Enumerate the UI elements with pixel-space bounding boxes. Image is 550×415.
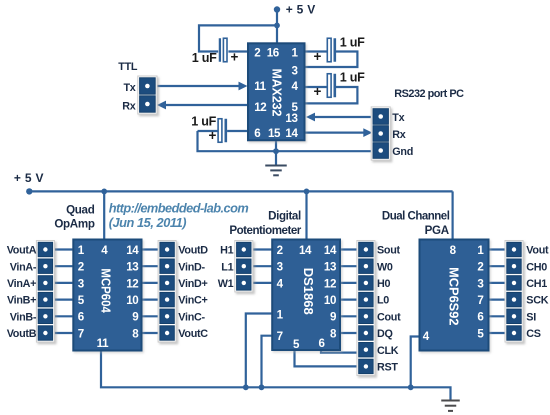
svg-text:13: 13 (285, 112, 298, 125)
svg-text:H0: H0 (377, 278, 390, 290)
svg-text:4: 4 (101, 244, 108, 257)
svg-text:12: 12 (126, 277, 138, 290)
svg-text:12: 12 (324, 277, 336, 290)
svg-text:6: 6 (254, 127, 261, 140)
svg-text:VinD-: VinD- (178, 261, 205, 273)
svg-text:Digital: Digital (268, 210, 301, 223)
svg-text:MAX232: MAX232 (270, 69, 285, 117)
svg-text:Tx: Tx (392, 112, 404, 124)
svg-text:RS232 port PC: RS232 port PC (394, 88, 464, 100)
svg-text:12: 12 (254, 101, 266, 114)
svg-text:VinA+: VinA+ (7, 278, 36, 290)
svg-text:CS: CS (526, 328, 540, 340)
svg-text:Sout: Sout (377, 245, 400, 257)
svg-text:9: 9 (132, 311, 139, 324)
svg-text:Dual Channel: Dual Channel (382, 211, 450, 223)
svg-text:9: 9 (330, 311, 337, 324)
svg-text:VoutA: VoutA (7, 245, 37, 257)
svg-text:8: 8 (132, 327, 139, 340)
svg-text:RST: RST (377, 362, 398, 374)
svg-text:13: 13 (324, 261, 337, 274)
svg-text:DQ: DQ (377, 328, 393, 340)
svg-text:Gnd: Gnd (392, 146, 413, 158)
svg-text:+: + (314, 49, 322, 64)
svg-text:3: 3 (277, 261, 284, 274)
svg-text:6: 6 (78, 311, 85, 324)
svg-text:1 uF: 1 uF (191, 115, 216, 129)
svg-text:Cout: Cout (377, 311, 401, 323)
svg-text:15: 15 (268, 127, 281, 140)
svg-text:+: + (209, 128, 217, 143)
svg-text:2: 2 (254, 46, 260, 59)
svg-text:2: 2 (78, 261, 84, 274)
svg-text:Potentiometer: Potentiometer (229, 224, 301, 237)
svg-text:+: + (231, 50, 239, 65)
svg-text:8: 8 (450, 244, 457, 257)
svg-text:VoutC: VoutC (178, 328, 208, 340)
svg-text:1: 1 (291, 46, 298, 59)
svg-text:Rx: Rx (392, 129, 405, 141)
svg-text:7: 7 (277, 330, 283, 343)
svg-text:Tx: Tx (124, 82, 136, 94)
svg-text:L1: L1 (221, 261, 233, 273)
svg-text:4: 4 (291, 80, 298, 93)
svg-text:TTL: TTL (118, 61, 138, 73)
svg-text:VinB-: VinB- (10, 311, 37, 323)
svg-text:Quad: Quad (66, 204, 95, 217)
svg-text:SI: SI (526, 311, 536, 323)
svg-text:http://embedded-lab.com: http://embedded-lab.com (109, 201, 249, 216)
svg-text:W0: W0 (377, 261, 393, 273)
svg-text:+ 5 V: + 5 V (286, 3, 316, 17)
svg-text:4: 4 (277, 277, 284, 290)
svg-text:1 uF: 1 uF (340, 71, 365, 85)
svg-text:VoutB: VoutB (7, 328, 37, 340)
svg-text:Rx: Rx (122, 101, 135, 113)
svg-text:1 uF: 1 uF (192, 51, 217, 65)
svg-text:+ 5 V: + 5 V (14, 171, 44, 185)
svg-text:CH1: CH1 (526, 278, 547, 290)
svg-text:OpAmp: OpAmp (54, 218, 95, 231)
svg-text:2: 2 (477, 261, 483, 274)
svg-text:6: 6 (318, 337, 325, 350)
svg-text:1: 1 (78, 244, 85, 257)
svg-text:MCP6S92: MCP6S92 (446, 267, 461, 325)
svg-text:(Jun 15, 2011): (Jun 15, 2011) (109, 215, 187, 230)
svg-text:5: 5 (78, 294, 85, 307)
svg-text:10: 10 (126, 294, 138, 307)
svg-text:W1: W1 (218, 278, 234, 290)
svg-text:7: 7 (78, 327, 84, 340)
svg-text:MCP604: MCP604 (99, 268, 114, 313)
svg-text:11: 11 (97, 337, 109, 350)
svg-text:14: 14 (299, 244, 312, 257)
svg-text:3: 3 (477, 277, 484, 290)
svg-text:14: 14 (126, 244, 139, 257)
svg-text:VoutD: VoutD (178, 245, 208, 257)
svg-text:VinC+: VinC+ (178, 295, 207, 307)
svg-text:VinC-: VinC- (178, 311, 205, 323)
svg-text:3: 3 (78, 277, 85, 290)
svg-text:1 uF: 1 uF (340, 36, 365, 50)
svg-text:8: 8 (330, 327, 337, 340)
svg-text:13: 13 (126, 261, 139, 274)
svg-text:CLK: CLK (377, 345, 399, 357)
svg-text:CH0: CH0 (526, 261, 547, 273)
svg-text:2: 2 (277, 244, 283, 257)
svg-text:11: 11 (254, 80, 266, 93)
svg-text:L0: L0 (377, 295, 389, 307)
svg-text:VinB+: VinB+ (7, 295, 36, 307)
svg-text:10: 10 (324, 294, 336, 307)
svg-text:SCK: SCK (526, 295, 548, 307)
svg-text:14: 14 (324, 244, 337, 257)
svg-text:16: 16 (267, 46, 280, 59)
svg-text:1: 1 (477, 244, 484, 257)
svg-text:7: 7 (477, 294, 483, 307)
svg-text:VinA-: VinA- (10, 261, 37, 273)
svg-text:DS1868: DS1868 (301, 268, 316, 315)
svg-text:14: 14 (285, 127, 298, 140)
svg-text:VinD+: VinD+ (178, 278, 207, 290)
svg-text:1: 1 (277, 308, 284, 321)
svg-text:4: 4 (423, 330, 430, 343)
svg-text:5: 5 (293, 338, 300, 351)
svg-text:3: 3 (291, 65, 298, 78)
svg-text:+: + (314, 84, 322, 99)
svg-text:H1: H1 (220, 245, 233, 257)
svg-text:PGA: PGA (425, 224, 450, 237)
svg-text:5: 5 (477, 327, 484, 340)
svg-text:Vout: Vout (526, 245, 549, 257)
svg-text:6: 6 (477, 311, 484, 324)
